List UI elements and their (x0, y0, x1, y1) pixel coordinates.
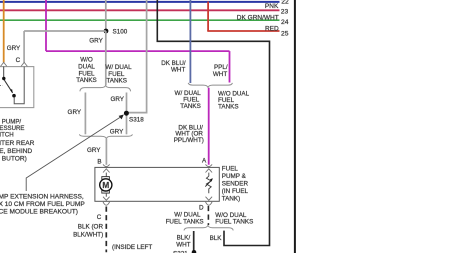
wire PNK horizontal to pin 23 (0, 9, 280, 11)
svg-text:X 10 CM FROM FUEL PUMP: X 10 CM FROM FUEL PUMP (0, 201, 85, 208)
svg-text:PPL/WHT): PPL/WHT) (174, 137, 204, 144)
svg-text:PNK: PNK (265, 3, 279, 10)
wire GRY vertical from top to S100 (105, 0, 107, 31)
pin D connector symbols (206, 197, 213, 206)
svg-text:BLK (OR: BLK (OR (78, 224, 104, 231)
label RED (265, 25, 279, 32)
wire GRY vertical to switch pin C (23, 31, 25, 62)
wire DK BLU horizontal to pin 22 (0, 1, 280, 3)
pin C connector symbols (103, 193, 110, 205)
svg-text:TANKS: TANKS (180, 103, 201, 110)
svg-text:B: B (97, 158, 101, 165)
option merge brace (GRY) (79, 134, 132, 139)
fuel level sender (variable resistor) (205, 176, 213, 193)
label GRY (pin B wire) (87, 147, 101, 154)
svg-text:BLK: BLK (210, 235, 223, 242)
label S318 (129, 116, 144, 123)
wire PPL horizontal (46, 50, 230, 52)
label GRY (switch pin C wire) (7, 45, 21, 52)
wire GRY merged to pump pin B (105, 139, 107, 165)
svg-text:GRY: GRY (87, 147, 101, 154)
option split brace (GRY) (80, 85, 131, 91)
svg-text:TANKS: TANKS (106, 78, 127, 85)
wire DK BLU/WHT vertical from top to merge brace (189, 0, 191, 83)
svg-text:M: M (102, 181, 109, 190)
svg-text:22: 22 (281, 0, 289, 5)
svg-text:25: 25 (281, 31, 289, 38)
label DK BLU/WHT (161, 60, 186, 74)
svg-text:MP EXTENSION HARNESS,: MP EXTENSION HARNESS, (0, 193, 84, 200)
splice S100 (104, 29, 109, 34)
label option W/ DUAL FUEL TANKS (pin A left) (175, 90, 202, 110)
label pin 23 (281, 8, 289, 15)
label B (97, 158, 101, 165)
wire GRY horizontal S100 to switch (24, 30, 106, 32)
label BLK/WHT (176, 235, 190, 249)
svg-text:S100: S100 (113, 28, 128, 35)
svg-text:WHT: WHT (213, 71, 227, 78)
label C (pump pin) (97, 214, 102, 221)
svg-text:(IN FUEL: (IN FUEL (222, 188, 249, 195)
wire ORG vertical to oil pressure switch (3, 0, 5, 62)
svg-text:SENDER: SENDER (222, 180, 249, 187)
wire RED vertical from top (207, 2, 209, 32)
wire PPL vertical from top (45, 0, 47, 51)
svg-text:RED: RED (265, 25, 279, 32)
label option W/ DUAL FUEL TANKS (top) (105, 64, 132, 85)
svg-text:ITCH: ITCH (0, 131, 14, 138)
svg-text:C: C (16, 57, 21, 64)
label GRY (left branch) (68, 109, 82, 116)
svg-text:CE MODULE BREAKOUT): CE MODULE BREAKOUT) (0, 208, 78, 215)
label BLK (210, 235, 223, 242)
svg-text:GRY: GRY (7, 45, 21, 52)
svg-text:WHT: WHT (171, 67, 185, 74)
label FUEL PUMP / OIL PRESSURE SWITCH (clipped) (0, 119, 24, 139)
pin B connector symbols (103, 164, 110, 176)
switch pin arrow (ORG) (1, 62, 7, 66)
wire GRY vertical from top to S318 (129, 0, 147, 113)
svg-text:GRY: GRY (110, 128, 124, 135)
label pin 24 (281, 19, 289, 26)
label S100 (113, 28, 128, 35)
switch blade (4, 80, 13, 93)
wire RED horizontal to pin 25 (207, 30, 279, 32)
svg-text:BUTOR): BUTOR) (2, 156, 27, 163)
label pin 22 (281, 0, 289, 5)
svg-text:23: 23 (281, 8, 289, 15)
splice S321 (clipped at bottom) (173, 250, 196, 253)
svg-text:GRY: GRY (68, 109, 82, 116)
svg-text:W/ DUAL: W/ DUAL (174, 211, 201, 218)
label BLK (OR BLK/WHT) (73, 224, 103, 239)
label DK GRN/WHT (237, 15, 279, 22)
wire BLK (OR BLK/WHT) dashed from pin C (105, 207, 107, 253)
label pin 25 (281, 31, 289, 38)
svg-text:S318: S318 (129, 116, 144, 123)
svg-text:PUMP &: PUMP & (222, 173, 247, 180)
label DK BLU/WHT (OR PPL/WHT) (174, 124, 204, 144)
wire BLK ground path from top (157, 0, 269, 246)
svg-text:(INSIDE LEFT: (INSIDE LEFT (112, 244, 152, 251)
svg-text:GRY: GRY (89, 37, 103, 44)
svg-text:TANK): TANK) (222, 195, 240, 202)
oil pressure switch box (0, 67, 34, 108)
label option W/ DUAL FUEL TANKS (pin D left) (166, 211, 204, 225)
svg-text:E, BEHIND: E, BEHIND (0, 148, 32, 155)
svg-text:BLK/WHT): BLK/WHT) (73, 231, 103, 238)
switch contact 2 (12, 94, 16, 98)
svg-text:TANKS: TANKS (218, 103, 239, 110)
svg-text:D: D (199, 204, 204, 211)
label switch location (clipped) (0, 140, 35, 162)
callout leader to S318 (26, 115, 124, 192)
option split brace at pin D (184, 225, 233, 230)
label GRY (right branch lower) (110, 128, 124, 135)
svg-text:FUEL TANKS: FUEL TANKS (215, 218, 253, 225)
fuel pump motor M1 (100, 177, 112, 193)
svg-text:FUEL TANKS: FUEL TANKS (166, 218, 204, 225)
pin A connector symbols (206, 164, 213, 176)
wire GRY vertical S100 down to option brace (105, 31, 107, 85)
merge brace at pin A (DK BLU/WHT + PPL) (188, 83, 232, 88)
wire PPL merged to pump pin A (208, 88, 210, 165)
splice S318 (124, 111, 129, 116)
fuel pump &amp; sender box (95, 167, 219, 201)
svg-text:C: C (97, 214, 102, 221)
wire PPL vertical to merge brace (229, 51, 231, 82)
switch wire to pin C (14, 67, 24, 104)
wire GRY left option branch (84, 93, 86, 135)
switch dashed link (0, 84, 3, 86)
svg-text:PPL/: PPL/ (214, 64, 228, 71)
label option W/O DUAL FUEL TANKS (pin A right) (218, 91, 250, 111)
switch pin arrow C (21, 62, 27, 66)
svg-text:W/O: W/O (80, 57, 93, 64)
wire dashed from pin D to split brace (207, 206, 209, 225)
label FUEL PUMP & SENDER (IN FUEL TANK) (222, 165, 249, 202)
label FUEL PUMP EXTENSION HARNESS callout (clipped) (0, 193, 85, 215)
label GRY (below S100) (89, 37, 103, 44)
svg-text:TANKS: TANKS (76, 77, 97, 84)
wire GRY right option branch (126, 93, 128, 135)
label option W/O DUAL FUEL TANKS (pin D right) (215, 212, 253, 226)
svg-text:24: 24 (281, 19, 289, 26)
svg-text:GRY: GRY (110, 96, 124, 103)
svg-text:FUEL: FUEL (222, 165, 239, 172)
right component box edge (cropped) (294, 0, 296, 253)
svg-text:WHT: WHT (176, 241, 190, 248)
wire DK GRN/WHT horizontal to pin 24 (0, 19, 280, 21)
wire BLK/WHT left branch to splice (193, 231, 195, 251)
switch contact 1 (2, 67, 5, 81)
label (INSIDE LEFT (112, 244, 152, 251)
label PNK (265, 3, 279, 10)
label option W/O DUAL FUEL TANKS (top) (76, 57, 97, 84)
label GRY (right branch upper) (110, 96, 124, 103)
svg-text:DK GRN/WHT: DK GRN/WHT (237, 15, 279, 22)
label D (199, 204, 204, 211)
label C (switch pin) (16, 57, 21, 64)
label A (202, 157, 207, 164)
svg-text:ITER REAR: ITER REAR (0, 140, 35, 147)
label PPL/WHT (213, 64, 228, 78)
svg-text:A: A (202, 157, 207, 164)
